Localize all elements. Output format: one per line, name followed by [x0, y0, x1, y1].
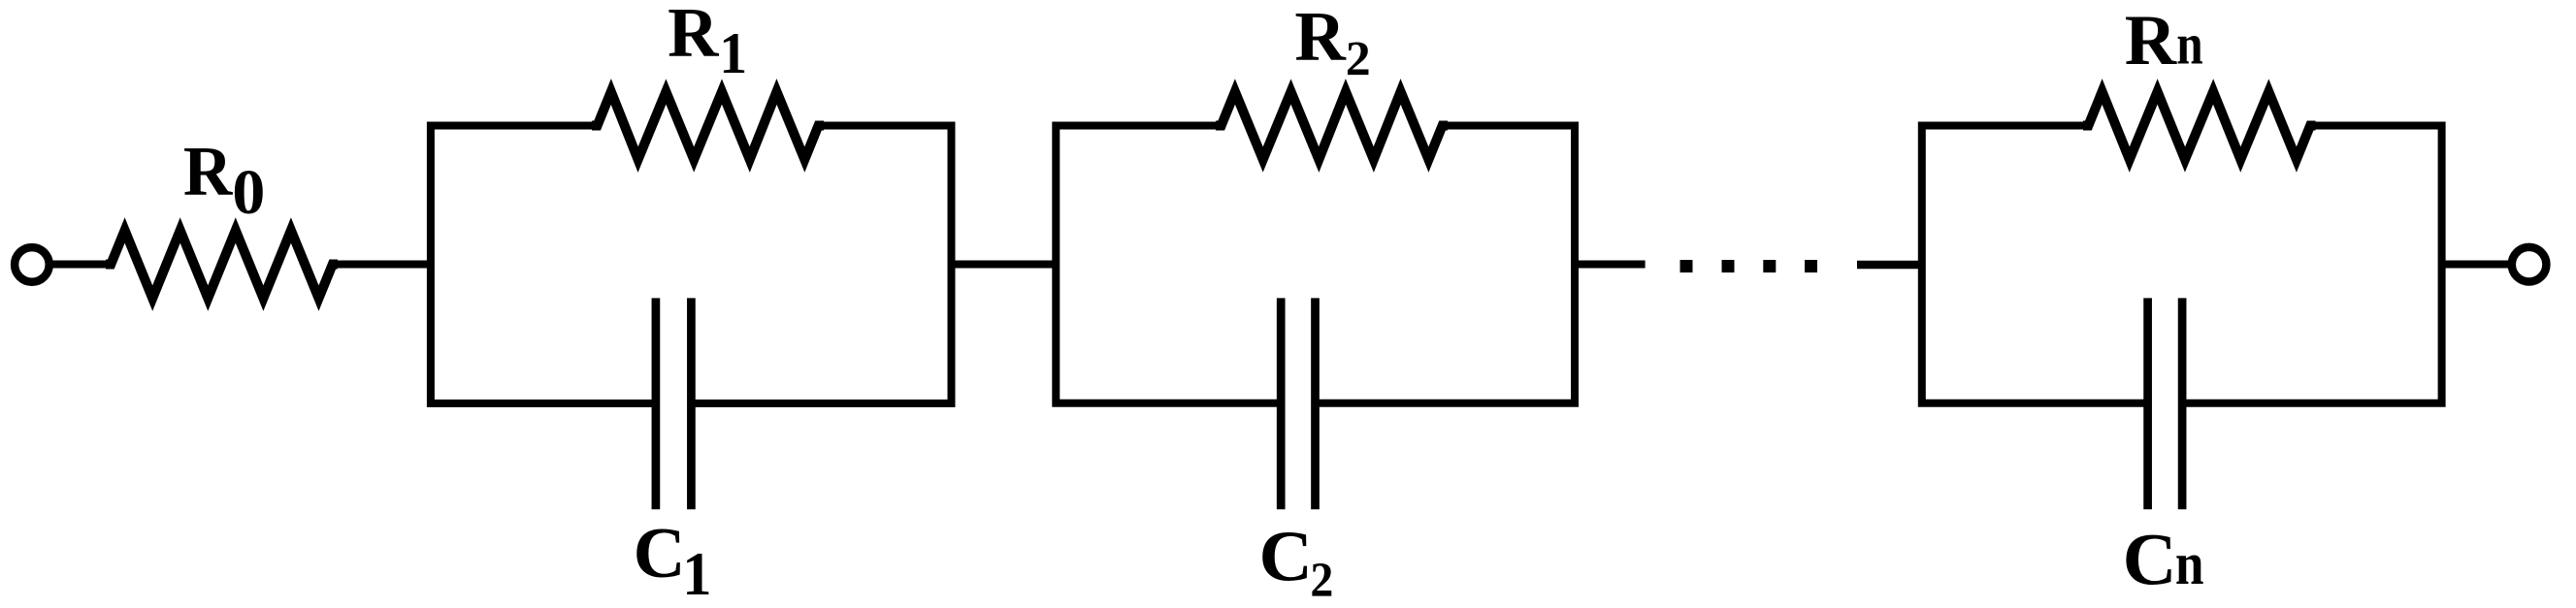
terminal T2 (right output): [2512, 247, 2547, 282]
resistor Rn: [2083, 92, 2316, 160]
wire: [52, 261, 113, 269]
label C2: [1259, 518, 1334, 608]
svg-text:n: n: [2176, 12, 2202, 77]
wire (box3 to right terminal): [2442, 261, 2508, 269]
wire (box3 right: top-right, right side, bottom-right): [2182, 126, 2442, 403]
wire (box3 left: top-left, left side, bottom-left): [1922, 126, 2148, 403]
resistor R2: [1216, 92, 1448, 160]
label C1: [634, 514, 712, 608]
capacitor Cn: [2148, 298, 2183, 509]
svg-text:C: C: [634, 514, 686, 593]
svg-text:R: R: [668, 0, 719, 72]
svg-text:C: C: [1259, 518, 1313, 597]
wire (box2 left: top-left, left side, bottom-left): [1056, 126, 1281, 403]
label Rn: [2125, 1, 2203, 80]
label R1: [668, 0, 747, 85]
wire (box1 right: top-right, right side, bottom-right): [691, 126, 951, 404]
svg-text:2: 2: [1310, 553, 1333, 608]
terminal T1 (left input): [15, 247, 49, 282]
label R2: [1294, 0, 1370, 86]
wire (box1 left: top-left, left side, bottom-left): [431, 126, 656, 404]
ellipsis dots (continuation): [1680, 260, 1693, 272]
svg-text:n: n: [2175, 529, 2204, 597]
capacitor C2: [1281, 298, 1315, 509]
resistor R1: [592, 92, 824, 160]
capacitor C1: [656, 298, 692, 509]
svg-text:1: 1: [682, 541, 711, 608]
svg-text:2: 2: [1346, 32, 1371, 86]
wire (box2 right stub): [1575, 261, 1646, 269]
svg-text:R: R: [2125, 1, 2178, 80]
label R0: [183, 132, 265, 228]
wire (box2 right: top-right, right side, bottom-right): [1316, 126, 1576, 403]
svg-text:C: C: [2123, 518, 2177, 600]
wire (stub into box3): [1857, 261, 1922, 270]
svg-text:1: 1: [719, 20, 747, 86]
wire (box1 to box2): [952, 261, 1057, 269]
svg-text:0: 0: [232, 157, 265, 227]
resistor R0: [106, 231, 338, 299]
svg-text:R: R: [1294, 0, 1347, 76]
svg-text:R: R: [183, 132, 234, 211]
label Cn: [2123, 518, 2204, 600]
wire: [332, 261, 431, 269]
